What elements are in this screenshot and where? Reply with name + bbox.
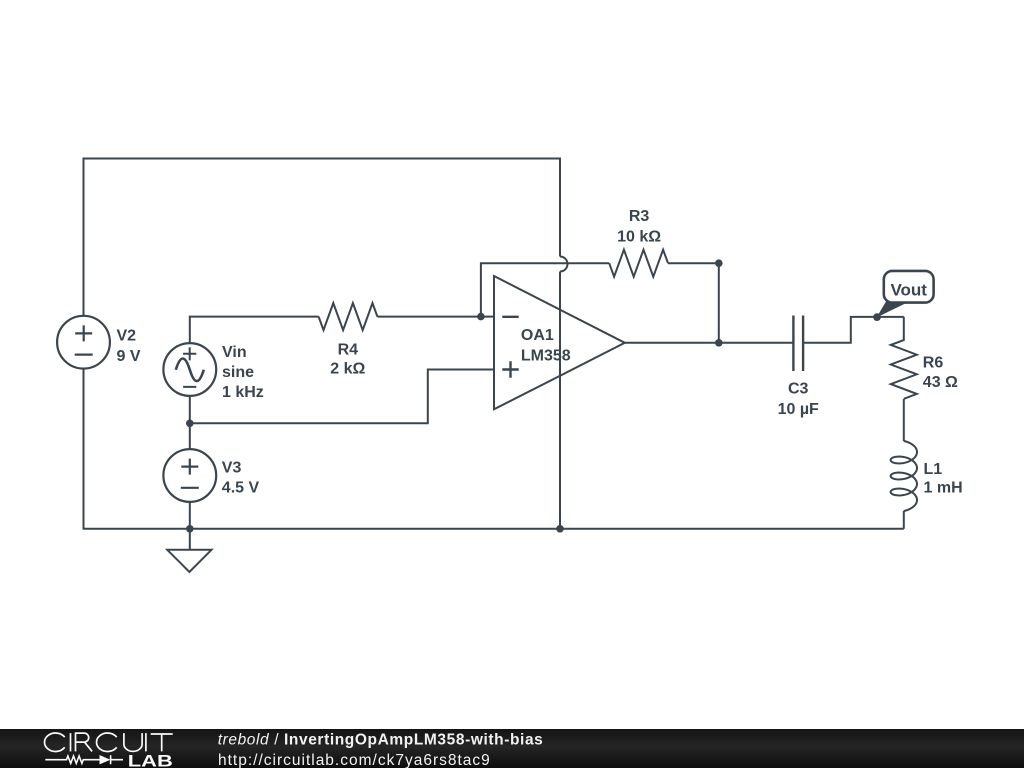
svg-text:10 kΩ: 10 kΩ bbox=[617, 228, 661, 245]
svg-text:4.5 V: 4.5 V bbox=[222, 480, 260, 497]
svg-text:trebold / InvertingOpAmpLM358-: trebold / InvertingOpAmpLM358-with-bias bbox=[218, 732, 544, 749]
svg-text:V3: V3 bbox=[222, 459, 242, 476]
resistor R3 bbox=[609, 250, 668, 277]
wire R3 to output node bbox=[668, 263, 719, 343]
node junction Vin minus / V3 plus bbox=[186, 420, 194, 428]
svg-text:http://circuitlab.com/ck7ya6rs: http://circuitlab.com/ck7ya6rs8tac9 bbox=[218, 752, 491, 768]
svg-text:1 mH: 1 mH bbox=[924, 480, 963, 497]
resistor R4 bbox=[319, 303, 378, 330]
ground symbol bbox=[167, 550, 211, 572]
svg-text:C3: C3 bbox=[788, 381, 809, 398]
wire C3 to Vout node and R6 bbox=[803, 317, 904, 343]
node junction at inverting input bbox=[477, 313, 485, 321]
footer logo squiggle + diode bbox=[45, 755, 123, 764]
inductor L1 bbox=[891, 441, 917, 511]
resistor R6 bbox=[891, 317, 917, 399]
svg-text:OA1: OA1 bbox=[521, 327, 554, 344]
footer bar bbox=[0, 729, 1024, 768]
wire feedback riser bbox=[481, 263, 609, 316]
node Vout bbox=[873, 313, 881, 321]
wire Vin bottom to V3 bbox=[189, 396, 191, 449]
wire top-left supply loop bbox=[84, 159, 561, 316]
node junction bottom rail / op-amp V- bbox=[556, 525, 564, 533]
source Vin sine bbox=[163, 343, 216, 396]
wire hop over feedback wire bbox=[560, 257, 568, 272]
node junction at op-amp output bbox=[715, 339, 723, 347]
wire op-amp output to C3 bbox=[625, 342, 794, 344]
wire Vin top to R4 bbox=[190, 317, 319, 344]
svg-text:10 µF: 10 µF bbox=[778, 401, 819, 418]
svg-text:V2: V2 bbox=[117, 327, 137, 344]
svg-text:2 kΩ: 2 kΩ bbox=[330, 361, 365, 378]
wire R6 to L1 bbox=[903, 399, 905, 441]
wire noninverting input branch bbox=[190, 370, 494, 424]
wire R4 to inverting input bbox=[377, 316, 494, 318]
svg-text:R3: R3 bbox=[629, 208, 650, 225]
wire op-amp power rail vertical bbox=[559, 272, 561, 529]
node junction R3 to feedback drop bbox=[715, 259, 723, 267]
svg-text:LAB: LAB bbox=[128, 752, 173, 768]
svg-text:Vin: Vin bbox=[222, 344, 247, 361]
voltage source V2 bbox=[57, 316, 110, 369]
wire V2 bottom to bottom rail bbox=[84, 369, 904, 529]
svg-text:R6: R6 bbox=[923, 355, 944, 372]
svg-text:R4: R4 bbox=[338, 341, 359, 358]
svg-text:L1: L1 bbox=[924, 461, 943, 478]
ground stub bbox=[189, 529, 191, 550]
svg-text:Vout: Vout bbox=[890, 281, 927, 300]
Vout flag box bbox=[884, 271, 934, 303]
voltage source V3 bbox=[163, 449, 216, 502]
svg-text:LM358: LM358 bbox=[521, 347, 571, 364]
op-amp OA1 bbox=[494, 276, 625, 409]
node junction at ground bbox=[186, 525, 194, 533]
Vout flag pointer wedge bbox=[877, 302, 907, 318]
wire L1 to bottom rail bbox=[903, 511, 905, 529]
svg-text:43 Ω: 43 Ω bbox=[923, 374, 958, 391]
wire V3 to bottom rail bbox=[189, 502, 191, 529]
svg-text:9 V: 9 V bbox=[117, 348, 141, 365]
svg-text:sine: sine bbox=[222, 364, 254, 381]
capacitor C3 bbox=[793, 316, 803, 372]
footer logo CIRCUIT bbox=[45, 733, 173, 751]
svg-text:1 kHz: 1 kHz bbox=[222, 384, 264, 401]
